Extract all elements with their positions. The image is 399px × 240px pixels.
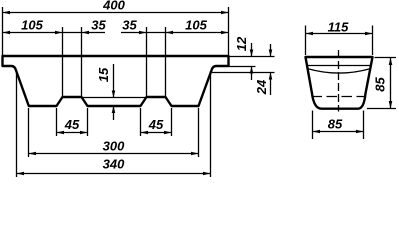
extension lines 340: [16, 71, 18, 177]
svg-text:105: 105: [185, 18, 207, 33]
dimension 85 height (rotated label): [390, 58, 392, 109]
dim 35 B (outside arrow at left): [139, 31, 147, 35]
svg-text:45: 45: [148, 117, 164, 132]
svg-text:85: 85: [328, 117, 343, 132]
extension lines 45 right: [140, 108, 142, 136]
cup rim inner arc: [308, 69, 371, 73]
extension line left edge (400/105): [2, 7, 4, 55]
cup rim inner line: [307, 65, 371, 67]
dimension row line segments: [3, 32, 106, 34]
extension lines 85 bottom: [312, 111, 314, 140]
svg-text:300: 300: [103, 139, 125, 154]
extension line wall-top level right: [212, 72, 275, 74]
extension lines 115: [305, 26, 307, 56]
floor line between ribs: [82, 97, 147, 99]
cup outline (right view): [306, 57, 373, 109]
extension lines 85 height: [375, 57, 397, 59]
dimension 45 left: [57, 132, 88, 134]
dimension 24 (rotated label): [270, 44, 272, 57]
cup centerline (dashed): [338, 50, 340, 112]
dimension 115: [306, 33, 373, 35]
svg-text:115: 115: [328, 20, 349, 35]
svg-text:24: 24: [254, 79, 269, 95]
svg-text:12: 12: [234, 36, 249, 51]
svg-text:105: 105: [21, 18, 43, 33]
dimension 340: [17, 173, 211, 175]
profile outline (left view, cross-section of form): [3, 56, 229, 106]
extension line x=146.5: [146, 27, 148, 97]
svg-text:15: 15: [96, 67, 111, 82]
svg-text:340: 340: [103, 157, 125, 172]
extension lines 45 left: [56, 108, 58, 136]
dimension 15 (rotated label): [113, 64, 115, 97]
svg-text:35: 35: [122, 18, 137, 33]
extension line x=62.5: [62, 27, 64, 97]
dim 105 right: [166, 31, 174, 35]
dimension 45 right: [141, 132, 172, 134]
extension line step level right: [229, 66, 256, 68]
dimension 400: [3, 12, 229, 14]
svg-text:35: 35: [91, 18, 106, 33]
dimension 85 bottom: [313, 131, 364, 133]
dim 105 left: [3, 31, 11, 35]
extension lines 300: [28, 108, 30, 157]
svg-text:85: 85: [373, 77, 388, 92]
dim 35 A (outside arrow at right): [82, 31, 90, 35]
cup hidden bottom line (dashed): [312, 96, 366, 98]
dimension 300: [29, 153, 199, 155]
svg-text:45: 45: [64, 117, 80, 132]
extension line x=81.5: [81, 27, 83, 97]
extension line right edge (400/105): [228, 7, 230, 55]
extension line top level right: [229, 56, 275, 58]
svg-text:400: 400: [102, 0, 125, 13]
extension line x=165.5: [165, 27, 167, 97]
dimension 12 (rotated label): [251, 43, 253, 57]
